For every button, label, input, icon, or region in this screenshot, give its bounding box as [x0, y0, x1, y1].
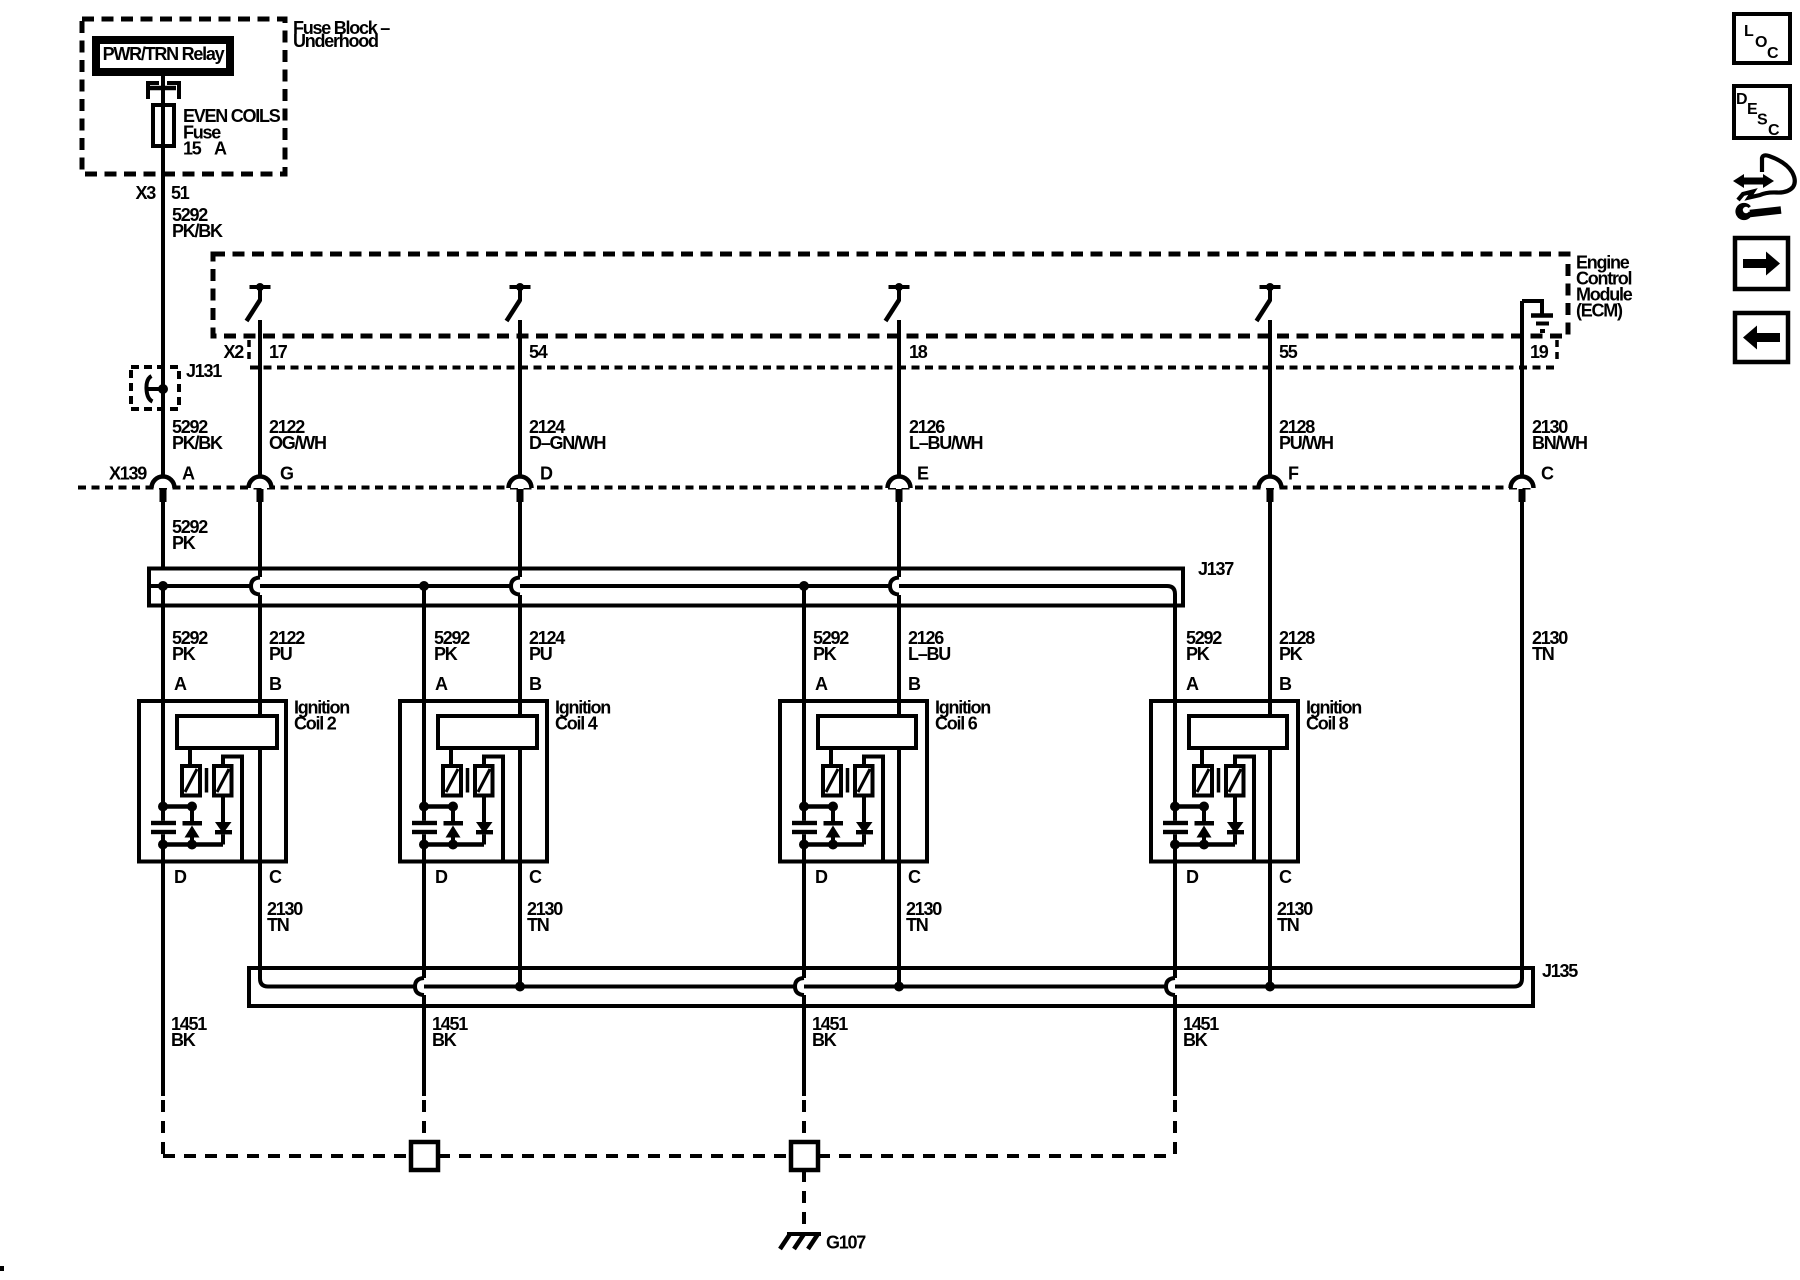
svg-text:S: S	[1757, 112, 1768, 129]
svg-text:D–GN/WH: D–GN/WH	[529, 433, 606, 453]
svg-text:Underhood: Underhood	[293, 31, 378, 51]
junction dot J137/A2	[158, 581, 168, 591]
connector X139 terminal G	[249, 464, 294, 503]
svg-text:55: 55	[1279, 342, 1298, 362]
junction dot J135/B8	[1265, 982, 1275, 992]
svg-text:PK: PK	[172, 533, 196, 553]
ground G107 symbol	[780, 1234, 821, 1249]
wire 5292 PK to coil 2 A	[161, 586, 165, 701]
svg-text:C: C	[529, 867, 542, 887]
label Fuse Block - Underhood	[293, 18, 390, 51]
splice pack J137 (bus outline)	[149, 569, 1183, 606]
ignition coil 6 (T6)	[780, 674, 990, 887]
svg-text:B: B	[529, 674, 542, 694]
wire dashed splice2 to coil8	[818, 1154, 1175, 1158]
svg-text:A: A	[435, 674, 448, 694]
svg-text:(ECM): (ECM)	[1576, 301, 1623, 321]
svg-text:Coil 8: Coil 8	[1306, 714, 1349, 734]
svg-text:J131: J131	[186, 361, 222, 381]
wire 2124 (X139 D down)	[518, 502, 522, 577]
icon forward arrow box	[1735, 238, 1788, 289]
label 1451 BK coil4	[432, 1014, 468, 1050]
wire hop 1451 coil8 over J135	[1165, 978, 1175, 995]
label 5292 PK/BK upper	[172, 205, 223, 241]
wire 2128 (X139 F down)	[1268, 502, 1272, 718]
svg-text:X2: X2	[223, 342, 244, 362]
label 2124 D-GN/WH	[529, 417, 606, 453]
wire 1451 BK coil4 D down	[422, 862, 426, 979]
svg-text:Coil 2: Coil 2	[294, 714, 337, 734]
svg-text:X139: X139	[109, 464, 147, 484]
svg-text:O: O	[1755, 34, 1767, 51]
svg-text:D: D	[435, 867, 448, 887]
wire 1451 BK coil8 D down	[1173, 862, 1177, 979]
wire relay output to fuse	[161, 76, 165, 176]
label 2122 OG/WH	[269, 417, 326, 453]
svg-text:C: C	[1279, 867, 1292, 887]
svg-text:TN: TN	[1532, 644, 1554, 664]
label EVEN COILS Fuse 15 A	[183, 106, 281, 159]
engine control module (ECM) dashed box	[213, 254, 1568, 336]
svg-text:PK/BK: PK/BK	[172, 433, 223, 453]
svg-text:X3: X3	[135, 183, 156, 203]
svg-text:Coil 6: Coil 6	[935, 714, 978, 734]
svg-text:F: F	[1288, 464, 1299, 484]
icon wrench	[1735, 200, 1781, 220]
connector X2 right tick	[1555, 340, 1559, 363]
pin 18	[909, 342, 928, 362]
wire 1451 BK coil2 dashed	[163, 1100, 411, 1156]
wire 5292 PK (X139 A down)	[161, 502, 165, 568]
label 2130 TN (right)	[1532, 628, 1568, 664]
svg-text:A: A	[1186, 674, 1199, 694]
svg-text:D: D	[540, 464, 553, 484]
svg-text:PWR/TRN Relay: PWR/TRN Relay	[103, 44, 225, 64]
svg-text:A: A	[214, 139, 227, 159]
svg-text:C: C	[908, 867, 921, 887]
coil driver 6 (ECM output, pin 18)	[886, 283, 910, 321]
wire hop 2122 over J137	[250, 578, 260, 595]
wire 2126 L-BU/WH (ECM pin 18 down)	[897, 320, 901, 477]
label Engine Control Module (ECM)	[1576, 253, 1633, 321]
svg-text:51: 51	[171, 183, 190, 203]
wire 5292 PK to coil 8 A	[1173, 594, 1177, 701]
svg-text:L–BU/WH: L–BU/WH	[909, 433, 982, 453]
coil driver 8 (ECM output, pin 55)	[1257, 283, 1281, 321]
wire dashed splice1 to splice2	[438, 1154, 791, 1158]
wire 2130 TN coil6 C down	[897, 746, 901, 987]
wire 1451 BK coil8 dashed	[1173, 1100, 1177, 1156]
wire 5292 PK/BK label	[172, 417, 223, 453]
splice S2 (ground splice)	[791, 1142, 818, 1170]
svg-text:PK: PK	[1279, 644, 1303, 664]
wire dashed to ground G107	[802, 1170, 806, 1230]
connector symbol below relay	[148, 83, 179, 99]
svg-text:BK: BK	[1183, 1030, 1208, 1050]
svg-text:PK: PK	[172, 644, 196, 664]
svg-text:PK: PK	[813, 644, 837, 664]
splice J131 (dashed box)	[131, 367, 179, 409]
wire 2130 TN coil4 C down	[518, 746, 522, 987]
pin 19	[1530, 342, 1549, 362]
label 2122 PU	[269, 628, 305, 664]
label 2130 TN coil4	[527, 899, 563, 935]
wire 5292 PK to coil 6 A	[802, 586, 806, 701]
svg-text:L–BU: L–BU	[908, 644, 950, 664]
ignition coil 8 (T8)	[1151, 674, 1361, 887]
label 5292 PK (coil8)	[1186, 628, 1222, 664]
splice pack J137 middle wire	[151, 586, 1175, 594]
svg-text:C: C	[1768, 122, 1780, 139]
svg-text:J135: J135	[1542, 961, 1578, 981]
svg-text:C: C	[1541, 464, 1554, 484]
wire 2130 TN coil2 C down	[260, 746, 268, 987]
splice J131 symbol	[146, 376, 168, 402]
wire 2130 (X139 C down to J135)	[1520, 502, 1524, 979]
connector X139 terminal C	[1511, 464, 1555, 503]
label 2126 L-BU	[908, 628, 950, 664]
connector X2 dashed line	[250, 366, 1556, 370]
wire 5292 PK/BK vertical	[161, 176, 165, 477]
wire 5292 PK to coil 4 A	[422, 586, 426, 701]
label 1451 BK coil6	[812, 1014, 848, 1050]
junction dot J135/B6	[894, 982, 904, 992]
label 5292 PK (coil4)	[434, 628, 470, 664]
label 2124 PU	[529, 628, 565, 664]
wire 1451 BK coil4 D down2	[422, 995, 426, 1096]
wire 2122 PU to coil 2 B	[258, 595, 262, 718]
svg-text:54: 54	[529, 342, 548, 362]
svg-text:TN: TN	[1277, 915, 1299, 935]
label J137	[1198, 559, 1234, 579]
wire 2124 D-GN/WH (ECM pin 54 down)	[518, 320, 522, 477]
pin 54	[529, 342, 548, 362]
svg-text:Coil 4: Coil 4	[555, 714, 598, 734]
svg-text:PK/BK: PK/BK	[172, 221, 223, 241]
icon back arrow box	[1735, 313, 1788, 362]
connector X139 dashed line	[78, 486, 1533, 490]
svg-text:TN: TN	[906, 915, 928, 935]
wire 1451 BK coil2 D down	[161, 862, 165, 1097]
svg-text:BK: BK	[812, 1030, 837, 1050]
wire 1451 BK coil4 dashed	[422, 1100, 426, 1142]
ignition coil 4 (T4)	[400, 674, 610, 887]
label 2130 TN coil8	[1277, 899, 1313, 935]
svg-text:OG/WH: OG/WH	[269, 433, 326, 453]
svg-text:J137: J137	[1198, 559, 1234, 579]
svg-text:C: C	[1767, 45, 1779, 62]
wire 2130 TN coil8 C down	[1268, 746, 1272, 987]
wire hop 2126 over J137	[889, 578, 899, 595]
icon harness double arrow	[1733, 174, 1774, 188]
svg-text:PU/WH: PU/WH	[1279, 433, 1333, 453]
label 2130 TN coil2	[267, 899, 303, 935]
coil driver 2 (ECM output, pin 17)	[247, 283, 271, 321]
svg-text:L: L	[1744, 23, 1754, 40]
svg-text:D: D	[1736, 91, 1748, 108]
wire 2130 TN right corner	[1514, 979, 1522, 987]
junction dot J137/A6	[799, 581, 809, 591]
wire 2126 L-BU to coil 6 B	[897, 595, 901, 718]
svg-text:G107: G107	[826, 1233, 866, 1253]
wire 1451 BK coil6 D down2	[802, 995, 806, 1096]
icon harness curve	[1738, 155, 1795, 200]
label PWR/TRN Relay	[103, 44, 225, 64]
svg-text:B: B	[1279, 674, 1292, 694]
svg-text:17: 17	[269, 342, 288, 362]
svg-text:TN: TN	[527, 915, 549, 935]
wire 2128 PU/WH (ECM pin 55 down)	[1268, 320, 1272, 477]
splice S1 (ground splice)	[411, 1142, 438, 1170]
junction dot J135/B4	[515, 982, 525, 992]
svg-text:15: 15	[183, 139, 202, 159]
label 2126 L-BU/WH	[909, 417, 982, 453]
svg-text:PU: PU	[529, 644, 552, 664]
label 5292 PK	[172, 517, 208, 553]
svg-text:A: A	[815, 674, 828, 694]
svg-text:PK: PK	[1186, 644, 1210, 664]
svg-text:BK: BK	[171, 1030, 196, 1050]
label J131	[186, 361, 222, 381]
wire 2124 PU to coil 4 B	[518, 595, 522, 718]
label 2130 TN coil6	[906, 899, 942, 935]
pin 17	[269, 342, 288, 362]
label 1451 BK coil2	[171, 1014, 207, 1050]
svg-text:D: D	[815, 867, 828, 887]
pin label X3 / 51	[135, 183, 189, 203]
splice pack J135 (bus outline)	[249, 968, 1533, 1006]
wire hop 1451 coil4 over J135	[414, 978, 424, 995]
connector X139 terminal A	[152, 464, 196, 503]
page corner mark	[0, 1266, 4, 1271]
wire 1451 BK coil6 D down	[802, 862, 806, 979]
label X139	[109, 464, 147, 484]
svg-text:A: A	[174, 674, 187, 694]
label 2128 PU/WH	[1279, 417, 1333, 453]
wire 1451 BK coil6 dashed	[802, 1100, 806, 1142]
label G107	[826, 1233, 866, 1253]
wire hop 2124 over J137	[510, 578, 520, 595]
wire 2130 BN/WH (ECM pin 19 down)	[1520, 301, 1524, 477]
fuse F: EVEN COILS Fuse 15 A (symbol)	[153, 105, 174, 146]
svg-text:19: 19	[1530, 342, 1549, 362]
svg-text:BK: BK	[432, 1030, 457, 1050]
connector X2 label and tick	[223, 340, 249, 363]
wire 1451 BK coil8 D down2	[1173, 995, 1177, 1096]
wire hop 1451 coil6 over J135	[794, 978, 804, 995]
label 1451 BK coil8	[1183, 1014, 1219, 1050]
label J135	[1542, 961, 1578, 981]
label 2130 BN/WH	[1532, 417, 1587, 453]
label 5292 PK (coil6)	[813, 628, 849, 664]
svg-text:E: E	[917, 464, 929, 484]
svg-text:B: B	[269, 674, 282, 694]
svg-text:A: A	[182, 464, 195, 484]
label 2128 PK	[1279, 628, 1315, 664]
svg-text:D: D	[1186, 867, 1199, 887]
wire 2122 OG/WH (ECM pin 17 down)	[258, 320, 262, 477]
svg-text:PK: PK	[434, 644, 458, 664]
icon LOC box	[1734, 14, 1790, 63]
svg-text:D: D	[174, 867, 187, 887]
svg-text:C: C	[269, 867, 282, 887]
connector X139 terminal E	[888, 464, 930, 503]
svg-text:G: G	[280, 464, 293, 484]
icon DESC box	[1734, 86, 1790, 139]
wire 2126 (X139 E down)	[897, 502, 901, 577]
relay K: PWR/TRN Relay box	[96, 40, 230, 72]
connector X139 terminal F	[1259, 464, 1300, 503]
svg-text:TN: TN	[267, 915, 289, 935]
splice pack J135 middle wire	[268, 985, 1514, 989]
junction dot J137/A4	[419, 581, 429, 591]
pin 55	[1279, 342, 1298, 362]
label 5292 PK (coil2)	[172, 628, 208, 664]
svg-text:PU: PU	[269, 644, 292, 664]
wire 2122 (X139 G down)	[258, 502, 262, 577]
svg-text:18: 18	[909, 342, 928, 362]
connector X139 terminal D	[509, 464, 554, 503]
ECM internal ground (pin 19)	[1522, 301, 1553, 331]
fuse block - underhood (dashed box)	[82, 19, 285, 174]
ignition coil 2 (T2)	[139, 674, 349, 887]
svg-text:B: B	[908, 674, 921, 694]
coil driver 4 (ECM output, pin 54)	[507, 283, 531, 321]
svg-text:BN/WH: BN/WH	[1532, 433, 1587, 453]
